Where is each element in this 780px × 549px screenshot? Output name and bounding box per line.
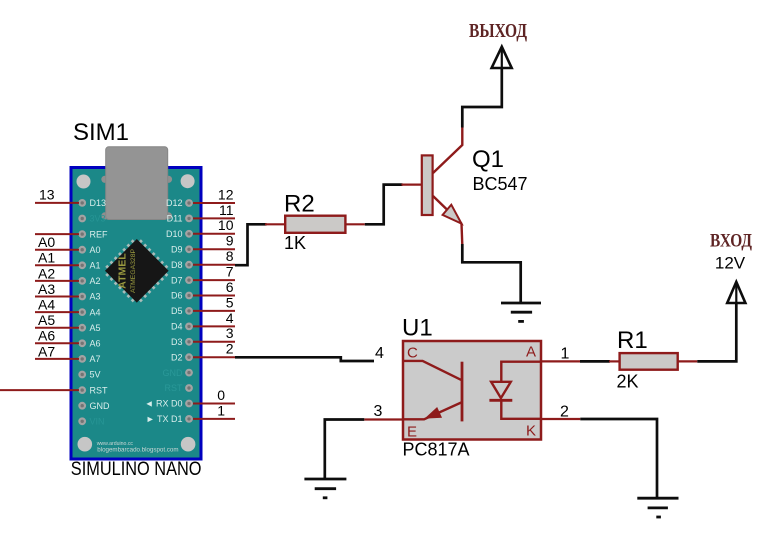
mounting hole top-left xyxy=(77,175,91,189)
svg-text:A6: A6 xyxy=(90,339,101,349)
mounting hole bottom-right xyxy=(181,437,196,452)
svg-text:A5: A5 xyxy=(38,312,55,328)
svg-text:A1: A1 xyxy=(38,250,55,266)
output terminal arrow VYHOD xyxy=(492,47,512,69)
resistor R1 xyxy=(609,353,697,370)
pin stub A3 left xyxy=(35,296,79,298)
svg-text:A0: A0 xyxy=(38,234,55,250)
U1 photodiode xyxy=(489,362,541,419)
svg-text:1K: 1K xyxy=(284,233,306,253)
svg-text:A2: A2 xyxy=(90,276,101,286)
svg-text:A3: A3 xyxy=(38,281,55,297)
board pin pads and names xyxy=(78,198,193,426)
svg-text:D12: D12 xyxy=(166,198,183,208)
pin stub D11 right xyxy=(193,217,235,219)
svg-text:R1: R1 xyxy=(617,327,648,354)
wire R2 to Q1 base xyxy=(365,185,403,225)
svg-text:11: 11 xyxy=(219,202,234,218)
svg-text:D11: D11 xyxy=(167,214,183,224)
svg-text:◄ RX D0: ◄ RX D0 xyxy=(145,399,183,409)
svg-text:3V3: 3V3 xyxy=(90,214,106,224)
input terminal arrow VHOD xyxy=(727,282,745,304)
svg-text:D4: D4 xyxy=(171,322,183,332)
svg-text:ATMEL: ATMEL xyxy=(117,253,129,289)
svg-text:D10: D10 xyxy=(166,229,183,239)
pin stub RX D0 right xyxy=(193,403,235,405)
svg-text:K: K xyxy=(526,423,536,440)
pin stub RST left xyxy=(0,389,79,391)
svg-text:ВЫХОД: ВЫХОД xyxy=(469,20,527,42)
svg-text:VIN: VIN xyxy=(90,417,105,427)
wire Q1 emitter to ground xyxy=(462,244,520,303)
svg-text:12: 12 xyxy=(218,186,234,202)
svg-text:A7: A7 xyxy=(38,343,55,359)
svg-text:D2: D2 xyxy=(171,352,183,362)
svg-text:GND: GND xyxy=(163,368,184,378)
svg-text:A: A xyxy=(526,344,536,361)
svg-text:A4: A4 xyxy=(38,297,55,313)
svg-text:A6: A6 xyxy=(38,328,55,344)
svg-text:Q1: Q1 xyxy=(472,146,504,173)
svg-text:9: 9 xyxy=(226,233,234,249)
svg-text:2: 2 xyxy=(560,404,569,421)
U1 phototransistor xyxy=(403,361,462,422)
mounting hole top-right xyxy=(181,174,195,188)
svg-text:A2: A2 xyxy=(38,265,55,281)
pin stub D12 right xyxy=(193,202,235,204)
svg-text:SIM1: SIM1 xyxy=(73,119,129,146)
svg-text:R2: R2 xyxy=(284,191,315,218)
svg-text:SIMULINO NANO: SIMULINO NANO xyxy=(71,459,202,480)
svg-text:2K: 2K xyxy=(617,371,639,391)
svg-text:4: 4 xyxy=(375,345,384,362)
svg-text:A5: A5 xyxy=(90,323,101,333)
svg-text:BC547: BC547 xyxy=(473,174,528,194)
pin stub D5 right xyxy=(193,310,235,312)
pin stub A6 left xyxy=(35,342,79,344)
pin stub A0 left xyxy=(35,249,79,251)
svg-text:RST: RST xyxy=(90,385,109,395)
svg-text:3: 3 xyxy=(226,325,234,341)
svg-text:D6: D6 xyxy=(171,291,183,301)
usb connector xyxy=(101,147,172,220)
svg-text:A7: A7 xyxy=(90,354,101,364)
pin stub D3 right xyxy=(193,341,235,343)
svg-text:U1: U1 xyxy=(402,315,433,342)
svg-text:D7: D7 xyxy=(171,275,183,285)
svg-text:REF: REF xyxy=(90,229,109,239)
svg-text:5V: 5V xyxy=(90,370,101,380)
pin stub D2 right xyxy=(193,356,235,358)
transistor Q1 xyxy=(402,128,463,246)
svg-text:C: C xyxy=(407,345,418,362)
pin stub D10 right xyxy=(193,233,235,235)
wire U1 pin1 to R1 xyxy=(541,360,580,362)
svg-text:E: E xyxy=(407,424,417,441)
svg-text:13: 13 xyxy=(39,187,55,203)
ground under U1 pin3 xyxy=(304,479,346,498)
pin stub D6 right xyxy=(193,295,235,297)
pin stub D4 right xyxy=(193,325,235,327)
svg-text:A4: A4 xyxy=(90,307,101,317)
svg-text:PC817A: PC817A xyxy=(403,440,470,460)
svg-text:12V: 12V xyxy=(715,254,746,273)
svg-text:ВХОД: ВХОД xyxy=(710,231,752,252)
svg-text:2: 2 xyxy=(226,341,234,357)
svg-text:D8: D8 xyxy=(171,260,183,270)
pin stub A4 left xyxy=(35,311,79,313)
wire U1 pin3 to ground xyxy=(364,418,403,420)
svg-text:3: 3 xyxy=(374,403,383,420)
optocoupler U1 box xyxy=(403,341,541,440)
pin stub D9 right xyxy=(193,248,235,250)
wire D8 to R2 xyxy=(235,224,267,265)
pin stub A1 left xyxy=(35,264,79,266)
svg-text:1: 1 xyxy=(217,402,225,418)
svg-text:D3: D3 xyxy=(171,337,183,347)
svg-text:► TX D1: ► TX D1 xyxy=(146,414,183,424)
svg-text:1: 1 xyxy=(561,346,570,363)
svg-text:0: 0 xyxy=(217,387,225,403)
pin stub D13 left xyxy=(35,202,79,204)
svg-text:A0: A0 xyxy=(90,245,101,255)
svg-text:D5: D5 xyxy=(171,306,183,316)
pin stub D7 right xyxy=(193,279,235,281)
svg-text:ATMEGA328P: ATMEGA328P xyxy=(130,249,137,294)
pin stub TX D1 right xyxy=(193,418,235,420)
svg-text:D9: D9 xyxy=(171,245,183,255)
svg-text:GND: GND xyxy=(90,401,111,411)
pin stub D8 right xyxy=(193,264,235,266)
svg-text:8: 8 xyxy=(226,248,234,264)
pin stub A2 left xyxy=(35,280,79,282)
mounting hole bottom-left xyxy=(78,437,93,452)
wire U1 pin2 to ground xyxy=(541,418,580,420)
ground under U1 pin2 xyxy=(637,498,678,517)
svg-text:6: 6 xyxy=(226,279,234,295)
resistor R2 xyxy=(265,216,365,233)
pin stub A7 left xyxy=(35,358,79,360)
svg-text:7: 7 xyxy=(226,264,234,280)
svg-text:RST: RST xyxy=(165,383,184,393)
svg-text:D13: D13 xyxy=(90,198,107,208)
svg-text:4: 4 xyxy=(226,310,234,326)
wire Q1 collector to output terminal xyxy=(462,69,502,128)
svg-text:blogembarcado.blogspot.com: blogembarcado.blogspot.com xyxy=(97,447,178,454)
arduino nano board SIM1 xyxy=(71,168,201,460)
atmega328p chip U-chip xyxy=(101,235,172,306)
pin stub A5 left xyxy=(35,327,79,329)
pin stub REF left xyxy=(35,233,79,235)
svg-text:A1: A1 xyxy=(90,261,101,271)
svg-text:A3: A3 xyxy=(90,292,101,302)
ground under Q1 xyxy=(501,303,541,321)
wire D2 to U1 pin4 xyxy=(235,357,374,361)
wire R1 to input terminal xyxy=(697,303,736,361)
svg-text:5: 5 xyxy=(226,294,234,310)
svg-text:10: 10 xyxy=(218,217,234,233)
